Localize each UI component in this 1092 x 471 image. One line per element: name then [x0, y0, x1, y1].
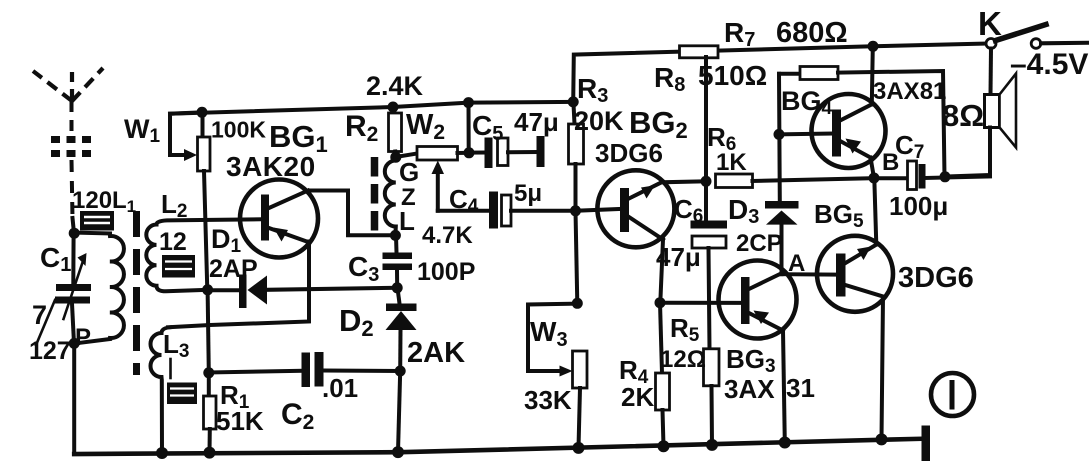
svg-text:BG5: BG5 — [814, 199, 864, 232]
label 7/127 P — [29, 300, 91, 365]
wire supply top rail — [573, 44, 986, 102]
svg-text:3AX: 3AX — [724, 374, 775, 404]
wire W2 node riser to bias rail — [467, 103, 471, 153]
inductor L1 core box — [80, 211, 114, 231]
label L3 turns 1 — [169, 359, 172, 378]
inductor L1 — [74, 233, 124, 344]
node C2 right — [395, 366, 406, 377]
wire R8 left down through BG4 base to D3 — [777, 74, 782, 202]
node B — [869, 173, 880, 184]
wire BG1 emitter return to L3 — [168, 242, 309, 328]
svg-text:K: K — [978, 5, 1002, 42]
diode D1 2AP — [208, 275, 267, 309]
capacitor C6 47u — [691, 181, 728, 348]
wire main bias rail 2.4K — [170, 102, 573, 114]
svg-text:W2: W2 — [406, 109, 445, 144]
ground terminal bar — [922, 426, 931, 462]
svg-text:R7: R7 — [724, 17, 755, 51]
svg-text:12Ω: 12Ω — [660, 346, 706, 373]
potentiometer W1 bracket and wiper — [170, 112, 202, 161]
wire D1 anode to C3 node — [267, 288, 397, 290]
svg-text:680Ω: 680Ω — [776, 17, 848, 49]
figure number 1 circle — [931, 373, 974, 416]
wire to BG3 base — [660, 301, 741, 305]
node rail BG5 collector — [876, 433, 888, 445]
wire BG2 base node down to W3 — [576, 211, 578, 303]
svg-text:31: 31 — [786, 373, 815, 403]
svg-text:2.4K: 2.4K — [366, 71, 424, 101]
svg-text:47μ: 47μ — [656, 242, 701, 272]
ground rail — [74, 439, 920, 454]
svg-text:C2: C2 — [281, 398, 314, 434]
svg-text:L3: L3 — [163, 329, 189, 362]
node rail R4 — [658, 440, 670, 452]
node R2 top — [388, 102, 399, 113]
svg-text:R3: R3 — [577, 73, 608, 107]
wire BG5 emitter riser to node B — [874, 178, 876, 244]
resistor R2 — [389, 107, 402, 157]
node rail W3 — [573, 442, 585, 454]
svg-text:BG4: BG4 — [781, 86, 833, 119]
wire left rail down — [72, 343, 76, 454]
svg-text:12: 12 — [159, 228, 187, 256]
transistor BG3 3AX31 — [719, 261, 797, 443]
transistor BG4 3AX81 — [779, 94, 886, 178]
wire detector node down to R1 — [208, 290, 209, 373]
inductor L2 core box — [162, 255, 195, 278]
core line L1-L2 — [133, 211, 140, 375]
node BG2 emitter R6 C6 — [701, 176, 712, 187]
node top rail / K — [868, 41, 879, 52]
node W1 top — [197, 107, 208, 118]
svg-text:100P: 100P — [417, 258, 475, 286]
wire BG1 collector to GZL bottom — [308, 191, 395, 236]
potentiometer W3 33K — [528, 304, 587, 448]
node rail BG3 emitter — [779, 437, 791, 449]
node R2 bottom / GZL top — [390, 152, 401, 163]
capacitor C5 47u — [469, 136, 545, 168]
svg-text:C5: C5 — [472, 110, 503, 145]
svg-text:2AP: 2AP — [209, 255, 258, 283]
svg-text:510Ω: 510Ω — [698, 60, 767, 91]
svg-text:33K: 33K — [524, 385, 572, 415]
diode D2 2AK — [386, 288, 417, 371]
inductor L2 and wire to BG1 base — [146, 219, 261, 291]
node A wire to BG5 base — [782, 272, 837, 276]
svg-text:1K: 1K — [716, 149, 747, 176]
transistor BG1 3AK20 — [240, 180, 318, 258]
svg-text:L: L — [399, 206, 415, 236]
node R1 top / C2 left — [203, 367, 214, 378]
diode D3 2CP — [765, 201, 799, 274]
inductor L3 core box — [167, 383, 197, 405]
wire antenna lead to tank node — [73, 218, 75, 233]
svg-text:–4.5V: –4.5V — [1010, 48, 1088, 81]
resistor R5 12 ohm — [704, 349, 720, 445]
svg-text:BG3: BG3 — [726, 344, 776, 377]
svg-text:C3: C3 — [348, 251, 379, 286]
node W2 right — [464, 147, 475, 158]
svg-text:3DG6: 3DG6 — [898, 262, 974, 294]
resistor R7 680 ohm — [680, 46, 719, 58]
wire BG4 collector riser — [872, 46, 873, 104]
resistor R3 20K — [569, 102, 584, 211]
wire 100K bottom to detector node — [204, 171, 207, 290]
node tank top — [69, 228, 80, 239]
node R4 top / BG2 collector — [655, 297, 666, 308]
svg-text:C6: C6 — [674, 194, 703, 227]
node C3 bottom / D1 anode — [392, 282, 403, 293]
resistor R1 51K — [204, 373, 217, 453]
svg-text:5μ: 5μ — [514, 180, 542, 207]
node detector D1/L2/R1 — [202, 284, 213, 295]
transistor BG5 3DG6 — [817, 236, 893, 440]
node rail R5 — [706, 439, 718, 451]
svg-text:C1: C1 — [40, 242, 71, 276]
svg-text:R5: R5 — [670, 313, 700, 346]
node rail R1 — [204, 447, 216, 459]
capacitor C3 100P — [383, 235, 413, 287]
svg-text:20K: 20K — [574, 106, 624, 136]
svg-text:2AK: 2AK — [407, 337, 465, 369]
svg-text:3AK20: 3AK20 — [226, 151, 316, 182]
svg-text:2CP: 2CP — [736, 230, 783, 257]
wire D2 node down to ground rail — [398, 371, 400, 452]
node tank bottom — [69, 338, 80, 349]
node BG4 base — [774, 129, 785, 140]
node R3 top — [568, 96, 579, 107]
inductor L3 — [151, 327, 170, 453]
capacitor C2 .01 — [209, 352, 400, 387]
transistor BG2 3DG6 — [576, 170, 675, 302]
wire C1 upper lead — [71, 233, 75, 284]
svg-text:100K: 100K — [211, 117, 266, 143]
svg-text:L1: L1 — [112, 187, 136, 216]
switch K — [986, 25, 1087, 49]
node GZL bottom / C3 top — [390, 230, 401, 241]
svg-text:R8: R8 — [654, 62, 685, 96]
svg-text:.01: .01 — [322, 373, 358, 403]
svg-text:2K: 2K — [621, 382, 654, 412]
resistor R4 2K — [656, 303, 670, 447]
capacitor C4 5u — [438, 192, 576, 229]
wire riser to R7 — [704, 57, 708, 181]
svg-text:G: G — [399, 157, 419, 187]
svg-text:D2: D2 — [339, 303, 374, 341]
svg-text:C7: C7 — [895, 130, 924, 163]
node riser top — [463, 97, 474, 108]
node W3 top — [572, 298, 583, 309]
svg-text:R2: R2 — [345, 110, 378, 146]
node rail D2/C2 — [392, 446, 404, 458]
inductor GZL — [375, 157, 396, 235]
resistor 100K of W1 — [198, 112, 211, 171]
svg-text:C4: C4 — [449, 184, 479, 217]
resistor R6 1K — [716, 174, 753, 188]
svg-text:D1: D1 — [211, 224, 242, 257]
svg-text:D3: D3 — [728, 194, 759, 228]
svg-text:W3: W3 — [530, 316, 568, 351]
svg-text:4.7K: 4.7K — [422, 222, 473, 249]
svg-text:W1: W1 — [124, 114, 160, 147]
svg-text:47μ: 47μ — [514, 107, 559, 137]
svg-text:3DG6: 3DG6 — [595, 138, 663, 168]
svg-text:100μ: 100μ — [889, 191, 948, 221]
svg-text:3AX81: 3AX81 — [873, 78, 946, 105]
svg-text:127: 127 — [29, 337, 71, 365]
svg-text:8Ω: 8Ω — [942, 98, 984, 133]
wire BG2 emitter to collector node — [662, 181, 707, 182]
svg-text:120: 120 — [72, 187, 112, 214]
wire C1 lower lead — [72, 304, 74, 344]
node C7 right / R8 — [940, 171, 951, 182]
node BG2 base — [570, 205, 581, 216]
capacitor C1 (variable, 7/127P) — [55, 253, 91, 319]
capacitor C7 100u — [874, 161, 990, 190]
antenna — [33, 68, 103, 218]
resistor R8 510 ohm — [779, 67, 945, 177]
wire R6 to node B — [753, 178, 875, 181]
node rail L3 — [156, 447, 168, 459]
svg-text:L2: L2 — [161, 189, 187, 222]
svg-text:51K: 51K — [216, 406, 264, 436]
speaker 8 ohm — [945, 49, 1017, 177]
svg-text:A: A — [788, 250, 805, 277]
potentiometer W2 4.7K — [396, 147, 469, 211]
